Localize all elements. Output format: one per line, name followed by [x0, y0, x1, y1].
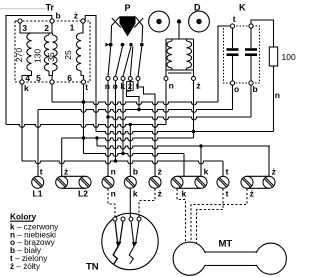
P terminal t [136, 77, 140, 81]
wire: D terminal n down to bus b4 [165, 81, 167, 125]
wire: C2 to b terminal [250, 56, 252, 81]
svg-text:ż – żółty: ż – żółty [10, 262, 41, 271]
screw terminal L2-right [79, 176, 91, 188]
wire ż: P terminal ż jog down to bus b2 [127, 81, 140, 110]
strap L2 terminals [62, 175, 85, 177]
wire: Tr terminal 5 down to bus b1 [51, 84, 53, 102]
wire: winding 25 to terminal 6 [81, 71, 84, 80]
junction P-ż / bus b2 [137, 108, 140, 111]
wire k (dashed) to handset [177, 189, 186, 243]
K terminal o [230, 81, 234, 85]
switch P contact (triangle) [105, 43, 109, 47]
Tr terminal 4 (k) [20, 80, 24, 84]
capacitor block K dashed outline [224, 26, 260, 83]
bell gong left [149, 11, 170, 32]
dial contact 1 [113, 217, 117, 221]
switch P contact dot 3 [129, 43, 132, 46]
bus b9 (y=161) [22, 161, 223, 164]
svg-text:n: n [105, 81, 110, 91]
wire n: resistor down to bus b5 [273, 66, 275, 132]
scan artifact line (decorative) [0, 8, 46, 10]
bell frame left [165, 39, 167, 76]
wire: P contact to terminal k [123, 46, 131, 76]
screw terminal n [102, 176, 114, 188]
wire: K t-terminal left and down to bus b1 [218, 26, 230, 102]
switch P left cross stroke [112, 18, 121, 28]
winding 35 [53, 35, 58, 71]
screw terminal L2-left (ż) [56, 176, 68, 188]
junction P-o / bus b9 [114, 159, 117, 162]
svg-text:ż: ż [158, 189, 162, 199]
switch P contact dot 1 [109, 43, 113, 47]
riser k: b/k screw terminal up to bus b4 [129, 125, 131, 177]
riser t: L1 screw up to bus b2 [37, 110, 39, 177]
svg-text:4: 4 [25, 73, 30, 83]
svg-text:ż: ż [64, 167, 68, 177]
junction Tr-t / bus b1 [82, 100, 85, 103]
wire: P contact to terminal n [108, 46, 111, 76]
svg-text:ż: ż [250, 189, 254, 199]
bell frame right [193, 39, 195, 76]
svg-text:k: k [133, 189, 138, 199]
junction D-ż / bus b5 [192, 130, 195, 133]
svg-text:n: n [111, 189, 116, 199]
bus b3 (y=117) [108, 117, 251, 120]
junction Tr-t / bus b6 [82, 136, 85, 139]
svg-text:ż: ż [74, 11, 78, 21]
bell armature bar lower [168, 72, 192, 74]
D terminal ż [192, 77, 196, 81]
winding 270 [27, 33, 32, 71]
wire: K to resistor 100 [251, 20, 274, 47]
bus b4 (y=124.5) [6, 125, 166, 128]
svg-text:L1: L1 [33, 189, 43, 199]
svg-text:t: t [226, 167, 229, 177]
wire: terminal 2 lead [51, 23, 53, 33]
svg-text:k: k [182, 189, 187, 199]
svg-text:t: t [226, 189, 229, 199]
svg-text:Tr: Tr [46, 3, 55, 13]
wire n: P terminal n down to screw terminal [107, 81, 109, 177]
Tr terminal 3 [18, 19, 22, 23]
Tr terminal 1 (ż) [81, 19, 85, 23]
wire: terminals 3/2 to winding tops [20, 23, 53, 33]
wire: winding 130 to terminal 5 [49, 71, 52, 76]
svg-text:t: t [40, 167, 43, 177]
bus b2 (y=109.5) [38, 110, 233, 113]
wire: winding 35 to terminal 5 [51, 71, 54, 80]
wire k (solid) to dial contact 3 [129, 189, 131, 217]
svg-text:ż: ż [158, 167, 162, 177]
wire ż (dashed) to handset [191, 189, 247, 244]
gong right striker dot [196, 19, 201, 24]
svg-text:ż: ż [272, 167, 276, 177]
gong left striker dot [156, 19, 161, 24]
screw terminal L1 (t) [32, 176, 44, 188]
svg-text:t: t [233, 14, 236, 24]
wire t (dashed) to handset [197, 189, 224, 245]
svg-text:b: b [56, 11, 61, 21]
strap ż terminals [247, 175, 269, 177]
junction P-k / bus b8 [121, 152, 124, 155]
wire: P contact to terminal o [116, 46, 123, 76]
screw terminal ż-right [263, 176, 275, 188]
svg-text:2: 2 [44, 23, 49, 33]
bus b5 (y=131.5) [96, 132, 274, 135]
svg-text:L2: L2 [78, 189, 88, 199]
svg-text:ż: ż [196, 81, 200, 91]
dial TN body [102, 213, 158, 269]
svg-text:o: o [234, 84, 239, 94]
riser t: t screw up to bus b9 [222, 161, 224, 176]
box around ż label [127, 82, 134, 91]
switch P right cross stroke [134, 18, 143, 28]
wire: C1 to o terminal [232, 56, 234, 81]
screw terminal ż [149, 176, 161, 188]
wire: D terminal ż down to bus b5 and b6 [193, 81, 195, 138]
screw terminal ż-left [241, 176, 253, 188]
wire: clapper stem [178, 24, 180, 39]
resistor 100 [269, 47, 277, 66]
bus b1 (y=102) [52, 102, 218, 105]
wire ż: Tr terminal 1 up, right, down to bus b5 [83, 16, 96, 132]
svg-text:n: n [111, 167, 116, 177]
bus b6 (y=138) [62, 138, 194, 141]
bell coil left [167, 41, 172, 68]
wire: terminal 1 lead [81, 23, 83, 33]
handset MT body [190, 251, 271, 253]
switch P contact dot 2 [121, 43, 125, 47]
P terminal ż [128, 77, 132, 81]
wire t: P terminal t double jog right, down to ż screw [138, 81, 155, 177]
wire k: Tr terminal 4 down to bus b9 [21, 84, 23, 161]
bell clapper [177, 19, 181, 23]
svg-text:t: t [85, 82, 88, 92]
Tr terminal 5 [50, 80, 54, 84]
Tr terminal 2 (b) [50, 19, 54, 23]
P terminal k [121, 77, 125, 81]
D terminal n [164, 77, 168, 81]
svg-text:n: n [169, 81, 174, 91]
P terminal n [106, 77, 110, 81]
dial contact 3 [129, 217, 133, 221]
bell yoke bar [166, 38, 194, 40]
svg-text:25: 25 [63, 50, 73, 60]
switch P left arm [111, 17, 120, 43]
bus b7 (y=146) [97, 146, 270, 149]
wire: P contact to terminal ż [130, 46, 133, 76]
svg-text:n: n [275, 90, 280, 100]
capacitor C2 plates [245, 48, 257, 51]
wire n (dashed) to dial contact 1 [108, 189, 115, 217]
wire b: Tr terminal 2 to left edge, down to bus b4 [6, 16, 52, 125]
svg-text:5: 5 [36, 73, 41, 83]
K terminal b [249, 81, 253, 85]
svg-text:b: b [253, 84, 258, 94]
switch P plunger (filled) [120, 16, 136, 36]
switch P contact dot 4 [140, 43, 144, 47]
svg-text:MT: MT [219, 239, 233, 250]
screw terminal k-left [171, 176, 183, 188]
svg-text:270: 270 [14, 48, 24, 62]
svg-text:1: 1 [70, 23, 75, 33]
dial contact 2 [121, 217, 125, 221]
screw terminal t [217, 176, 229, 188]
riser ż: strap screw up to bus b7 [268, 146, 270, 176]
bell coil right [187, 41, 192, 68]
wire: K terminal o down to bus b2 [232, 85, 234, 109]
svg-text:35: 35 [46, 52, 56, 62]
junction k riser / bus b4 [129, 123, 132, 126]
strap k terminals [177, 175, 201, 177]
junction P-n / bus b3 [106, 115, 109, 118]
svg-text:130: 130 [32, 49, 42, 63]
bus b8 (y=153.5) [84, 154, 185, 157]
junction b7 stub / bus b6 [95, 136, 98, 139]
winding 25 [76, 33, 81, 71]
riser ż: L2 screw up to bus b6 [61, 138, 63, 176]
wire t: Tr terminal 6 down to bus b8 [83, 84, 85, 153]
stub: bus b6 to bus b7 [96, 138, 98, 146]
svg-text:k: k [24, 83, 29, 93]
winding 130 [44, 35, 49, 71]
svg-text:3: 3 [22, 23, 27, 33]
svg-text:100: 100 [282, 52, 296, 62]
riser: bus b8 down to k strap [183, 154, 185, 177]
dial contact 4 [137, 217, 141, 221]
svg-text:K: K [239, 3, 246, 13]
Tr terminal 6 (t) [81, 80, 85, 84]
wire k: P terminal k down to bus b8 [122, 81, 124, 154]
capacitor C1 plates [227, 48, 239, 51]
svg-text:b: b [133, 167, 138, 177]
P terminal o [114, 77, 118, 81]
svg-text:6: 6 [67, 73, 72, 83]
K terminal t [230, 24, 234, 28]
wire: K top to capacitor C2 [250, 28, 252, 48]
wire: K terminal b down to bus b3 [250, 85, 252, 117]
wire: K t-terminal to capacitor C1 [232, 28, 234, 48]
transformer Tr dashed outline [15, 21, 90, 82]
switch P right arm [136, 17, 143, 43]
screw terminal b/k [124, 176, 136, 188]
junction k-screw riser / bus b7 [199, 144, 202, 147]
svg-text:P: P [125, 3, 131, 13]
screw terminal k-right [195, 176, 207, 188]
bell armature bar upper [166, 69, 194, 71]
dial impulse springs left [115, 221, 118, 243]
wire ż (dashed) to dial contact 4 [139, 189, 155, 217]
svg-text:k: k [204, 167, 209, 177]
wire: winding 270 to terminal 4 [22, 71, 32, 80]
riser k: strap screw up to bus b7 [200, 146, 202, 176]
wire o: P terminal o down to bus b9 [115, 81, 117, 162]
svg-text:TN: TN [86, 262, 99, 273]
bell gong right [189, 11, 210, 32]
K terminal (top right) [249, 24, 253, 28]
svg-text:Kolory: Kolory [10, 212, 37, 222]
wire: P contact to terminal t [138, 47, 142, 77]
dial impulse springs right [131, 221, 134, 243]
